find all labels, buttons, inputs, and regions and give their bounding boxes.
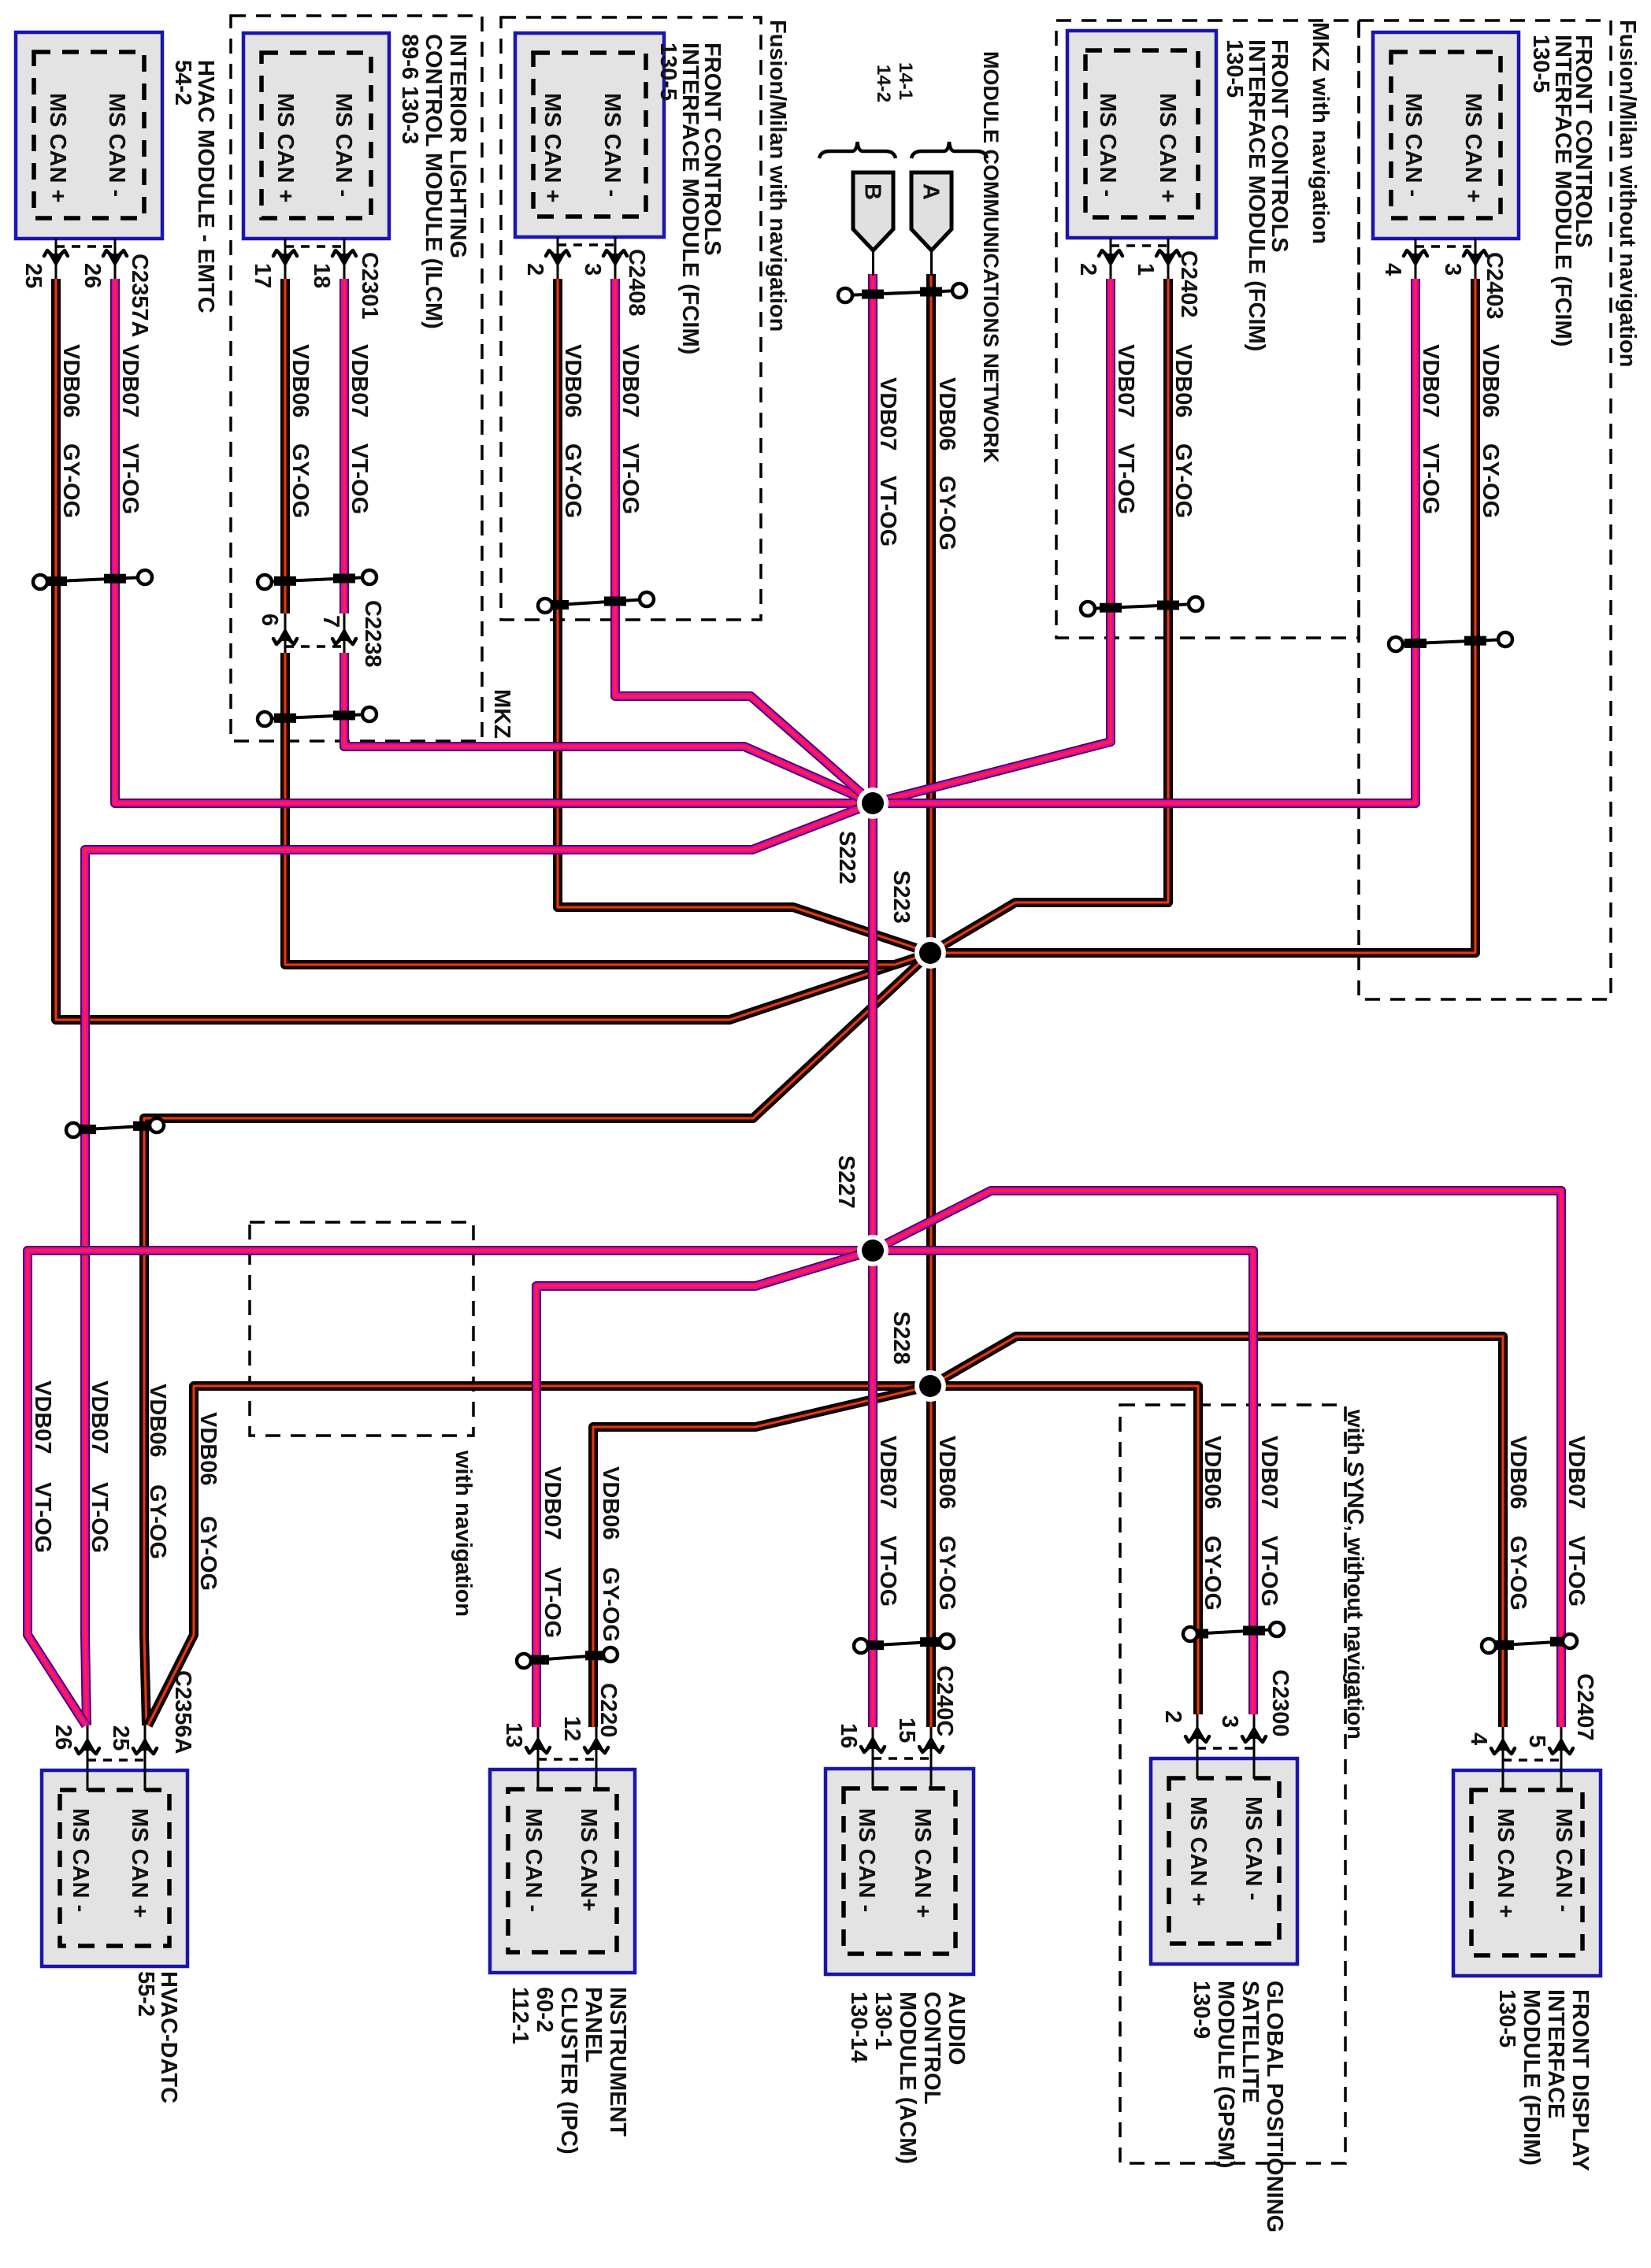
svg-text:MODULE COMMUNICATIONS NETWORK: MODULE COMMUNICATIONS NETWORK xyxy=(979,51,1003,463)
svg-text:25: 25 xyxy=(108,1725,133,1751)
svg-text:SATELLITE: SATELLITE xyxy=(1237,1981,1263,2103)
svg-text:GLOBAL POSITIONING: GLOBAL POSITIONING xyxy=(1262,1981,1287,2233)
svg-text:4: 4 xyxy=(1466,1732,1491,1745)
svg-text:2: 2 xyxy=(1075,263,1100,276)
svg-text:AUDIO: AUDIO xyxy=(944,1992,969,2065)
svg-text:GY-OG: GY-OG xyxy=(934,1536,959,1610)
svg-text:CONTROL: CONTROL xyxy=(919,1992,944,2104)
svg-text:C2402: C2402 xyxy=(1176,250,1201,317)
svg-text:16: 16 xyxy=(836,1723,861,1748)
svg-text:FRONT DISPLAY: FRONT DISPLAY xyxy=(1568,1989,1593,2171)
svg-text:C2356A: C2356A xyxy=(170,1670,195,1754)
svg-text:VDB06: VDB06 xyxy=(1171,344,1196,418)
svg-text:VDB06: VDB06 xyxy=(934,377,959,451)
svg-text:C2238: C2238 xyxy=(360,600,385,667)
svg-text:GY-OG: GY-OG xyxy=(288,443,313,518)
svg-text:VDB06: VDB06 xyxy=(934,1436,959,1510)
svg-text:60-2: 60-2 xyxy=(532,1987,557,2033)
svg-text:VT-OG: VT-OG xyxy=(1564,1536,1589,1606)
svg-text:C220: C220 xyxy=(595,1683,621,1737)
svg-text:1: 1 xyxy=(1133,263,1158,276)
svg-text:PANEL: PANEL xyxy=(581,1987,606,2062)
svg-text:VT-OG: VT-OG xyxy=(618,443,643,514)
svg-text:A: A xyxy=(918,183,944,200)
svg-text:Fusion/Milan with navigation: Fusion/Milan with navigation xyxy=(765,20,790,332)
svg-text:MS CAN+: MS CAN+ xyxy=(576,1808,601,1911)
svg-text:VDB07: VDB07 xyxy=(875,1436,900,1510)
svg-text:C2408: C2408 xyxy=(624,249,649,316)
svg-text:MS CAN -: MS CAN - xyxy=(854,1808,879,1912)
svg-text:VDB06: VDB06 xyxy=(1505,1436,1530,1510)
svg-text:130-5: 130-5 xyxy=(1528,35,1553,93)
svg-text:MS CAN -: MS CAN - xyxy=(1551,1808,1576,1912)
svg-text:C2301: C2301 xyxy=(357,252,382,319)
svg-text:VDB06: VDB06 xyxy=(58,344,83,418)
svg-text:C240C: C240C xyxy=(932,1666,957,1736)
svg-text:26: 26 xyxy=(50,1725,76,1750)
svg-text:VDB06: VDB06 xyxy=(195,1412,221,1486)
svg-text:5: 5 xyxy=(1524,1735,1549,1747)
svg-text:VDB07: VDB07 xyxy=(30,1380,55,1455)
svg-text:VDB06: VDB06 xyxy=(288,344,313,418)
svg-text:MS CAN +: MS CAN + xyxy=(1460,93,1486,202)
svg-text:MS CAN -: MS CAN - xyxy=(521,1808,546,1912)
svg-text:C2403: C2403 xyxy=(1482,252,1507,319)
svg-text:3: 3 xyxy=(1217,1715,1242,1728)
svg-text:VT-OG: VT-OG xyxy=(875,1536,900,1606)
svg-text:112-1: 112-1 xyxy=(507,1987,532,2044)
svg-text:MS CAN +: MS CAN + xyxy=(910,1808,935,1918)
svg-text:25: 25 xyxy=(20,263,46,288)
svg-text:Fusion/Milan without navigatio: Fusion/Milan without navigation xyxy=(1615,20,1640,367)
svg-text:MS CAN +: MS CAN + xyxy=(540,93,565,202)
svg-text:130-1: 130-1 xyxy=(870,1992,896,2050)
svg-text:MS CAN -: MS CAN - xyxy=(331,93,356,197)
svg-text:MODULE (GPSM): MODULE (GPSM) xyxy=(1213,1981,1238,2168)
svg-text:VT-OG: VT-OG xyxy=(347,443,372,514)
svg-text:VDB07: VDB07 xyxy=(1564,1436,1589,1510)
svg-text:VDB06: VDB06 xyxy=(560,344,585,418)
svg-text:CONTROL MODULE (ILCM): CONTROL MODULE (ILCM) xyxy=(421,34,446,329)
svg-text:MS CAN +: MS CAN + xyxy=(1155,93,1180,202)
svg-text:7: 7 xyxy=(318,615,343,628)
svg-text:GY-OG: GY-OG xyxy=(1200,1536,1225,1610)
svg-text:14-1: 14-1 xyxy=(895,62,916,100)
svg-text:130-9: 130-9 xyxy=(1189,1981,1214,2039)
svg-text:S223: S223 xyxy=(889,870,914,924)
svg-text:VDB07: VDB07 xyxy=(618,344,643,418)
svg-text:C2357A: C2357A xyxy=(127,254,152,337)
svg-text:MS CAN -: MS CAN - xyxy=(599,93,625,197)
svg-text:17: 17 xyxy=(250,263,275,288)
svg-text:130-14: 130-14 xyxy=(846,1992,871,2062)
svg-text:VDB06: VDB06 xyxy=(598,1466,623,1540)
svg-text:89-6 130-3: 89-6 130-3 xyxy=(397,34,422,144)
svg-text:VT-OG: VT-OG xyxy=(87,1482,112,1553)
svg-text:MS CAN +: MS CAN + xyxy=(1185,1796,1211,1906)
svg-text:GY-OG: GY-OG xyxy=(1171,443,1196,518)
svg-text:6: 6 xyxy=(257,613,282,626)
svg-text:VDB06: VDB06 xyxy=(1200,1436,1225,1510)
svg-text:VDB06: VDB06 xyxy=(1478,344,1503,418)
svg-text:GY-OG: GY-OG xyxy=(560,443,585,518)
svg-text:C2300: C2300 xyxy=(1267,1669,1293,1736)
svg-text:INSTRUMENT: INSTRUMENT xyxy=(605,1987,630,2136)
svg-text:VDB07: VDB07 xyxy=(875,377,900,451)
svg-text:MS CAN +: MS CAN + xyxy=(127,1808,152,1918)
svg-text:VT-OG: VT-OG xyxy=(117,443,143,514)
svg-text:with SYNC, without navigation: with SYNC, without navigation xyxy=(1342,1409,1367,1740)
svg-text:VT-OG: VT-OG xyxy=(540,1567,565,1638)
svg-text:C2407: C2407 xyxy=(1572,1673,1597,1740)
svg-text:130-5: 130-5 xyxy=(655,43,681,101)
svg-text:VT-OG: VT-OG xyxy=(30,1482,55,1553)
svg-text:26: 26 xyxy=(80,263,105,288)
svg-text:14-2: 14-2 xyxy=(873,65,894,102)
svg-text:MS CAN -: MS CAN - xyxy=(1241,1796,1266,1900)
svg-text:18: 18 xyxy=(309,263,334,288)
svg-text:VT-OG: VT-OG xyxy=(1113,443,1138,514)
svg-text:VDB07: VDB07 xyxy=(1418,344,1443,418)
svg-text:MS CAN +: MS CAN + xyxy=(1493,1808,1518,1918)
svg-text:MS CAN -: MS CAN - xyxy=(1095,93,1120,197)
svg-text:with navigation: with navigation xyxy=(451,1450,476,1617)
svg-text:MKZ with navigation: MKZ with navigation xyxy=(1308,22,1333,244)
svg-text:GY-OG: GY-OG xyxy=(58,443,83,518)
svg-text:HVAC-DATC: HVAC-DATC xyxy=(156,1971,181,2103)
svg-text:MS CAN -: MS CAN - xyxy=(68,1808,93,1912)
svg-text:130-5: 130-5 xyxy=(1494,1989,1519,2047)
svg-text:VT-OG: VT-OG xyxy=(875,476,900,547)
svg-text:VDB07: VDB07 xyxy=(1256,1436,1282,1510)
svg-text:4: 4 xyxy=(1380,263,1405,276)
svg-text:MS CAN +: MS CAN + xyxy=(273,93,298,202)
svg-text:13: 13 xyxy=(501,1722,526,1747)
svg-text:MODULE (ACM): MODULE (ACM) xyxy=(895,1992,920,2164)
svg-text:GY-OG: GY-OG xyxy=(934,476,959,550)
svg-text:B: B xyxy=(860,183,885,200)
svg-text:MKZ: MKZ xyxy=(489,689,514,739)
svg-text:MS CAN -: MS CAN - xyxy=(104,93,129,197)
svg-text:3: 3 xyxy=(1440,263,1465,276)
svg-text:MS CAN -: MS CAN - xyxy=(1401,93,1426,197)
svg-text:MODULE (FDIM): MODULE (FDIM) xyxy=(1519,1989,1544,2166)
svg-text:55-2: 55-2 xyxy=(133,1971,158,2017)
svg-text:VT-OG: VT-OG xyxy=(1256,1536,1282,1606)
svg-text:GY-OG: GY-OG xyxy=(195,1516,221,1591)
svg-text:GY-OG: GY-OG xyxy=(145,1484,170,1559)
svg-text:MS CAN +: MS CAN + xyxy=(45,93,70,202)
svg-text:VDB07: VDB07 xyxy=(117,344,143,418)
svg-text:VDB07: VDB07 xyxy=(1113,344,1138,418)
svg-text:2: 2 xyxy=(522,263,547,276)
svg-text:VDB07: VDB07 xyxy=(347,344,372,418)
svg-text:CLUSTER (IPC): CLUSTER (IPC) xyxy=(556,1987,581,2155)
svg-text:FRONT CONTROLS: FRONT CONTROLS xyxy=(1267,39,1292,253)
svg-text:HVAC MODULE - EMTC: HVAC MODULE - EMTC xyxy=(193,60,218,313)
svg-text:54-2: 54-2 xyxy=(170,60,195,106)
svg-text:GY-OG: GY-OG xyxy=(598,1567,623,1642)
svg-text:S227: S227 xyxy=(833,1155,859,1209)
svg-text:VT-OG: VT-OG xyxy=(1418,443,1443,514)
svg-text:S228: S228 xyxy=(889,1311,914,1365)
svg-text:VDB07: VDB07 xyxy=(87,1380,112,1455)
svg-text:VDB07: VDB07 xyxy=(540,1466,565,1540)
svg-text:VDB06: VDB06 xyxy=(145,1384,170,1458)
svg-text:S222: S222 xyxy=(834,831,859,884)
svg-text:15: 15 xyxy=(894,1718,919,1743)
svg-text:3: 3 xyxy=(580,263,605,276)
svg-text:2: 2 xyxy=(1160,1710,1185,1723)
svg-text:INTERIOR LIGHTING: INTERIOR LIGHTING xyxy=(445,34,470,258)
svg-text:INTERFACE: INTERFACE xyxy=(1543,1989,1568,2118)
svg-text:12: 12 xyxy=(559,1716,584,1741)
svg-text:GY-OG: GY-OG xyxy=(1478,443,1503,518)
svg-text:130-5: 130-5 xyxy=(1222,39,1247,98)
svg-text:GY-OG: GY-OG xyxy=(1505,1536,1530,1610)
